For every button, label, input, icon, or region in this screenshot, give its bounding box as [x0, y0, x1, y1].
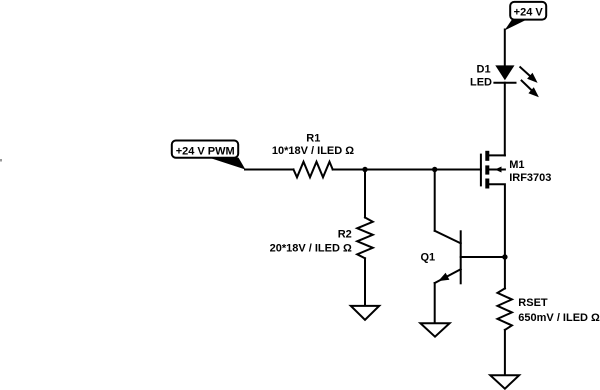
svg-text:M1: M1 — [509, 159, 524, 171]
svg-text:RSET: RSET — [518, 297, 548, 309]
svg-text:IRF3703: IRF3703 — [509, 172, 551, 184]
svg-text:650mV / ILED Ω: 650mV / ILED Ω — [518, 312, 600, 324]
svg-text:20*18V / ILED Ω: 20*18V / ILED Ω — [270, 242, 352, 254]
svg-text:R2: R2 — [338, 229, 352, 241]
svg-text:Q1: Q1 — [421, 252, 436, 264]
svg-text:10*18V / ILED Ω: 10*18V / ILED Ω — [272, 145, 354, 157]
svg-text:R1: R1 — [306, 133, 320, 145]
svg-text:LED: LED — [470, 77, 492, 89]
svg-text:+24 V PWM: +24 V PWM — [176, 146, 235, 158]
svg-text:+24 V: +24 V — [514, 7, 544, 19]
svg-text:D1: D1 — [477, 64, 491, 76]
